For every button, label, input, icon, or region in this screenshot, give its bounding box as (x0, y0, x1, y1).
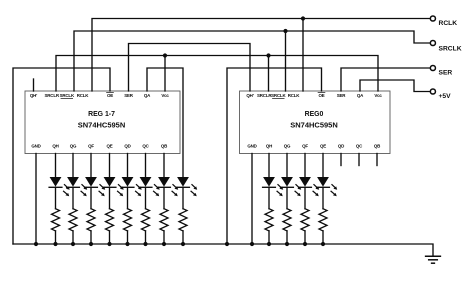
svg-text:RCLK: RCLK (77, 93, 90, 98)
svg-text:OE: OE (107, 93, 113, 98)
svg-text:GND: GND (31, 144, 41, 149)
svg-text:SER: SER (337, 93, 347, 98)
svg-text:QB: QB (161, 144, 167, 149)
svg-text:SRCLK: SRCLK (439, 45, 462, 52)
svg-text:SN74HC595N: SN74HC595N (78, 121, 126, 130)
LED D2 (U1 QG output) (67, 154, 88, 209)
resistor R8 (D8 series resistor) + rail junction (179, 209, 187, 246)
svg-text:OE: OE (318, 93, 324, 98)
svg-text:GND: GND (247, 144, 257, 149)
svg-text:QH: QH (52, 144, 58, 149)
wire Vcc rail: U1 SRCLR pin up, across to U2 Vcc pin (56, 56, 378, 92)
LED D9 (U2 QH output) (263, 154, 284, 209)
LED D10 (U2 QG output) (281, 154, 302, 209)
svg-text:SER: SER (124, 93, 134, 98)
svg-text:Vcc: Vcc (374, 93, 382, 98)
svg-text:QA: QA (144, 93, 151, 98)
wire ground rail (bottom bus to ground symbol) (13, 244, 433, 256)
svg-text:+5V: +5V (439, 93, 452, 100)
svg-text:SRCLK: SRCLK (60, 93, 75, 98)
terminal RCLK (430, 16, 457, 27)
svg-text:QD: QD (124, 144, 131, 149)
svg-text:QH': QH' (246, 93, 253, 98)
svg-text:REG 1-7: REG 1-7 (88, 111, 115, 118)
svg-text:QC: QC (356, 144, 363, 149)
wire +5V terminal to U2 QA pin (360, 80, 431, 92)
svg-text:QA: QA (357, 93, 364, 98)
wire U2 OE to ground rail (centre drop) (225, 68, 322, 246)
wire U2 QC stub (358, 154, 360, 166)
LED D8 (U1 QA output) (177, 177, 198, 208)
ground symbol (426, 256, 441, 263)
wire U2 GND pin to ground rail (250, 154, 254, 247)
U1 bottom pin labels (GND QH QG QF QE QD QC QB) (31, 144, 167, 149)
svg-text:QH: QH (266, 144, 272, 149)
U1 top pin labels (QH' SRCLR SRCLK RCLK OE SER QA Vcc) (30, 93, 169, 99)
U2 top pin labels (QH' SRCLR SRCLK RCLK OE SER QA Vcc) (246, 93, 382, 99)
wire SER net: U2 SER pin to SER terminal (341, 68, 431, 91)
svg-text:QB: QB (374, 144, 380, 149)
junction + wire Vcc rail to U2 SRCLR pin (266, 53, 270, 91)
svg-text:RCLK: RCLK (439, 20, 458, 27)
resistor R11 (D11 series resistor) + rail junction (301, 209, 309, 246)
svg-text:QE: QE (320, 144, 326, 149)
terminal +5V (430, 89, 451, 100)
svg-text:QF: QF (88, 144, 94, 149)
resistor R10 (D10 series resistor) + rail junction (283, 209, 291, 246)
resistor R9 (D9 series resistor) + rail junction (265, 209, 273, 246)
LED D3 (U1 QF output) (85, 154, 106, 209)
resistor R6 (D6 series resistor) + rail junction (142, 209, 150, 246)
junction + wire RCLK to U2 RCLK pin (301, 16, 305, 91)
LED D7 (U1 QB output) (158, 154, 179, 209)
svg-text:QF: QF (302, 144, 308, 149)
svg-text:Vcc: Vcc (161, 93, 169, 98)
LED D6 (U1 QC output) (139, 154, 160, 209)
svg-text:QE: QE (106, 144, 112, 149)
wire U1 OE to ground rail (left side) (13, 68, 110, 244)
svg-text:QH': QH' (30, 93, 37, 98)
wire serial chain: U2 QH' to U1 SER (129, 44, 251, 92)
wire U1 QA up and around to LED column D8 (147, 68, 183, 178)
wire RCLK net: U1 RCLK pin up and across to RCLK terminal (92, 19, 431, 92)
svg-text:QC: QC (142, 144, 149, 149)
terminal SRCLK (430, 40, 461, 52)
LED D11 (U2 QF output) (299, 154, 320, 209)
terminal SER (430, 65, 452, 76)
resistor R3 (D3 series resistor) + rail junction (87, 209, 95, 246)
svg-text:SRCLR: SRCLR (45, 93, 60, 98)
svg-text:SN74HC595N: SN74HC595N (290, 121, 338, 130)
svg-text:SER: SER (439, 70, 453, 77)
svg-text:QD: QD (338, 144, 345, 149)
LED D12 (U2 QE output) (317, 154, 338, 209)
resistor R2 (D2 series resistor) + rail junction (69, 209, 77, 246)
svg-text:RCLK: RCLK (288, 93, 301, 98)
U2 bottom pin labels (GND QH QG QF QE QD QC QB) (247, 144, 380, 149)
svg-text:QG: QG (70, 144, 77, 149)
wire SRCLK net: U1 SRCLK pin up, across, step down to SRCLK terminal (74, 31, 431, 91)
resistor R12 (D12 series resistor) + rail junction (319, 209, 327, 246)
svg-text:SRCLR: SRCLR (257, 93, 272, 98)
resistor R1 (D1 series resistor) + rail junction (52, 209, 60, 246)
wire U1 GND pin to ground rail (34, 154, 38, 247)
svg-text:SRCLK: SRCLK (271, 93, 286, 98)
junction + wire Vcc rail to U1 Vcc pin (163, 53, 167, 91)
LED D5 (U1 QD output) (121, 154, 142, 209)
LED D1 (U1 QH output) (49, 154, 70, 209)
svg-text:QG: QG (284, 144, 291, 149)
wire U1 QH' stub (unconnected) (33, 79, 35, 91)
svg-text:REG0: REG0 (305, 111, 324, 118)
junction + wire SRCLK to U2 SRCLK pin (283, 29, 287, 91)
LED D4 (U1 QE output) (103, 154, 124, 209)
resistor R4 (D4 series resistor) + rail junction (106, 209, 114, 246)
resistor R5 (D5 series resistor) + rail junction (124, 209, 132, 246)
wire U2 QD stub (340, 154, 342, 166)
resistor R7 (D7 series resistor) + rail junction (160, 209, 168, 246)
IC U1 body (REG 1-7, SN74HC595N) (25, 91, 180, 154)
IC U2 body (REG0, SN74HC595N) (240, 91, 391, 154)
wire U2 QB stub (376, 154, 378, 166)
